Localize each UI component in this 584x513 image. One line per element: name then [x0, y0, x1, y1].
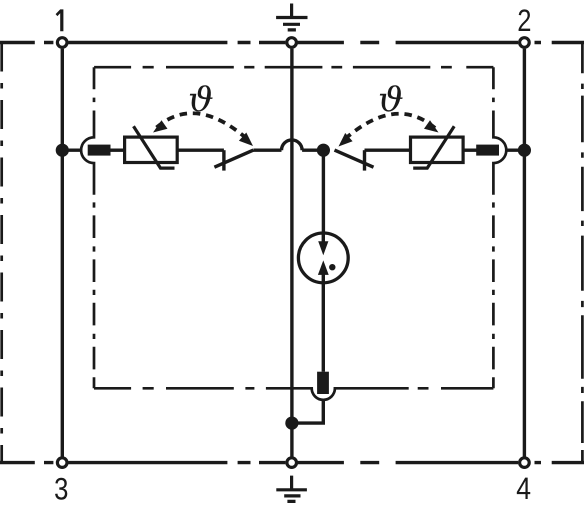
wire varistor RV1 to disconnector [177, 148, 224, 151]
wire varistor RV2 to blade [463, 148, 477, 151]
thermal disconnector contact post right [363, 150, 366, 170]
ground top [276, 4, 307, 30]
node junction dot center [317, 144, 330, 157]
thermal disconnector blade left [214, 150, 253, 167]
wire socket to PE node [292, 400, 323, 423]
arrowhead right arc left end [339, 133, 353, 147]
arrowhead right arc right end [424, 120, 439, 132]
varistor RV1 diagonal [134, 126, 175, 168]
wire bottom row line 3-4 [0, 461, 584, 464]
inner module boundary right edge with socket arc [493, 67, 506, 388]
wire blade to varistor RV1 [110, 148, 124, 151]
terminal 1 [57, 38, 67, 48]
outer enclosure border right [581, 43, 584, 463]
wire center node to spark gap [322, 150, 325, 233]
node junction dot left [56, 144, 69, 157]
arrowhead left arc left end [153, 120, 168, 132]
wire disconnector to varistor RV2 [365, 148, 411, 151]
arrowhead left arc right end [239, 133, 253, 147]
terminal 2 [520, 38, 530, 48]
thermal disconnector contact post left [222, 150, 225, 170]
label theta left [190, 85, 213, 111]
terminal 4 [520, 458, 530, 468]
label terminal 1 [56, 9, 64, 31]
plug-in blade contact bottom [317, 372, 329, 394]
thermal disconnector blade right [335, 150, 374, 167]
varistor RV2 diagonal [413, 126, 454, 168]
wire socket to right node [506, 148, 525, 151]
terminal PE bottom [287, 458, 297, 468]
outer enclosure border left [0, 43, 3, 463]
label terminal 4 [517, 478, 530, 499]
wire left node to socket [62, 148, 80, 151]
terminal 3 [57, 458, 67, 468]
node junction dot right [518, 144, 531, 157]
wire top row line 1-2 [0, 41, 584, 44]
inner module boundary top edge [94, 66, 493, 69]
spark gap electrode stems [322, 233, 325, 283]
inner module boundary left edge with socket arc [81, 67, 94, 388]
wire bump to center node [302, 148, 323, 151]
varistor RV2 body [411, 137, 464, 162]
label terminal 3 [55, 478, 67, 500]
wire disconnector to center bump [253, 148, 281, 151]
plug-in blade contact right [476, 145, 499, 156]
node junction dot PE [285, 417, 298, 430]
varistor RV1 body [125, 137, 178, 162]
wire terminal 1 to terminal 3 vertical [61, 49, 64, 457]
label terminal 2 [519, 9, 531, 31]
inner module boundary bottom edge with socket arc [94, 388, 493, 400]
wire spark gap to bottom blade [322, 283, 325, 372]
thermal coupling arc right [342, 114, 436, 142]
label theta right [380, 85, 403, 111]
spark gap F1 electrodes [318, 241, 336, 275]
ground bottom [276, 476, 307, 502]
wire center PE vertical [290, 49, 293, 457]
thermal coupling arc left [157, 113, 251, 141]
wire terminal 2 to terminal 4 vertical [523, 49, 526, 457]
wire crossover bump over PE line [282, 140, 303, 150]
plug-in blade contact left [88, 145, 111, 156]
terminal PE top [287, 38, 297, 48]
spark gap F1 circle [298, 233, 348, 283]
